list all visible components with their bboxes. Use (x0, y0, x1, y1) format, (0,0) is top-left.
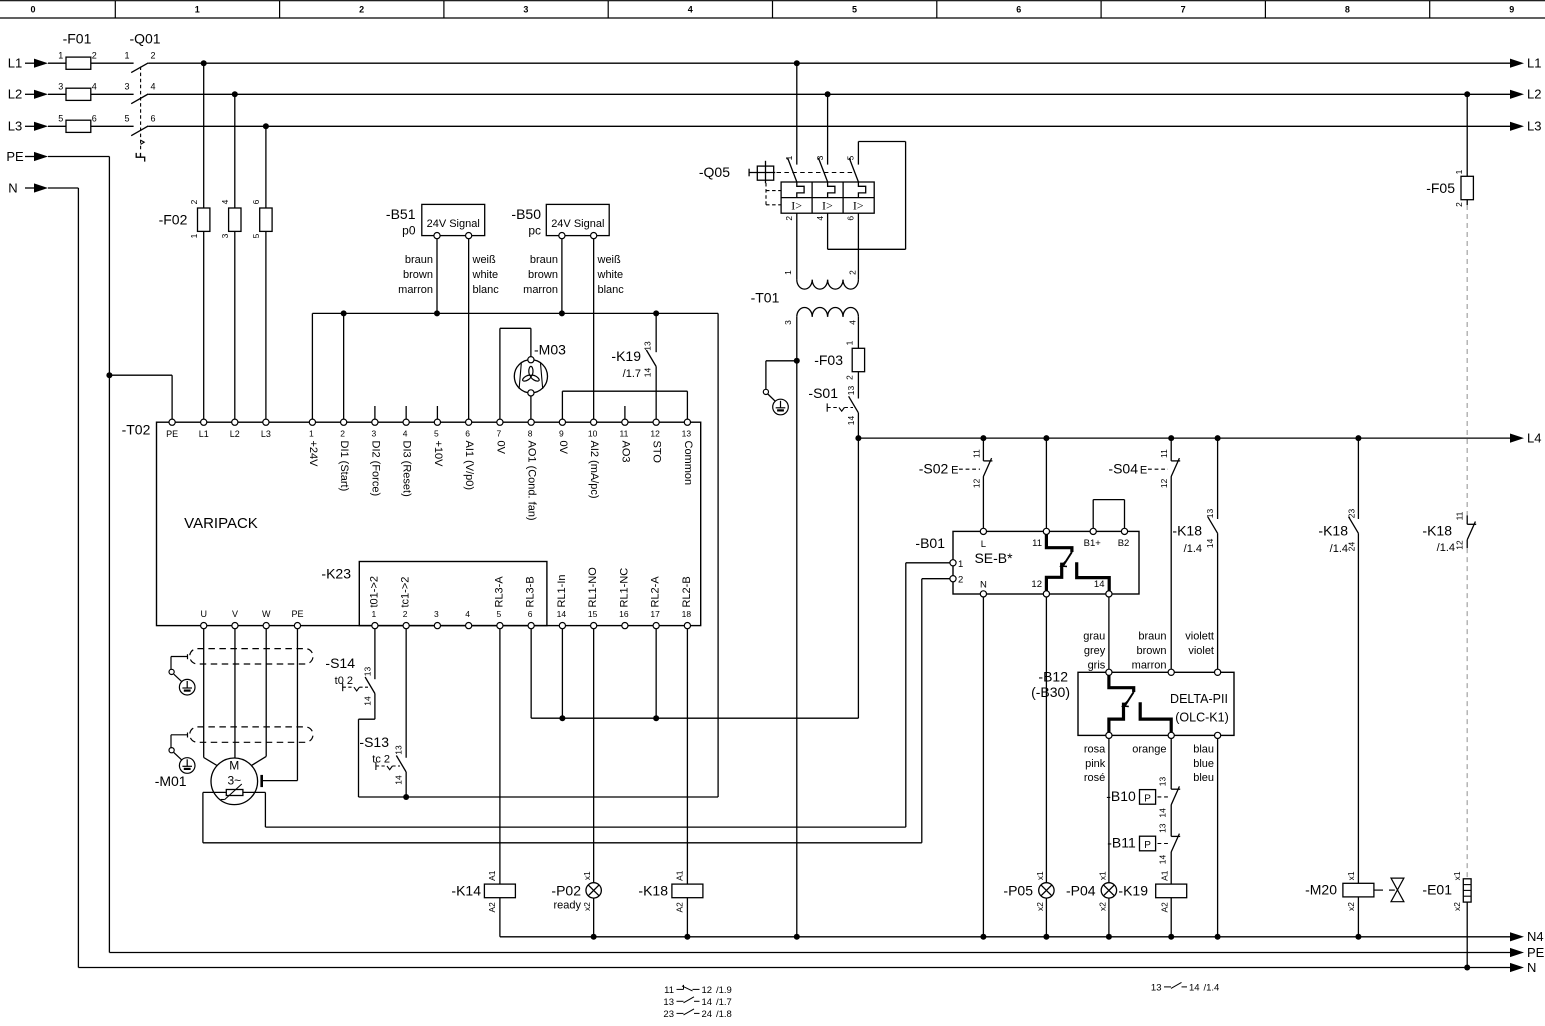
svg-text:1: 1 (783, 270, 793, 275)
svg-text:11: 11 (1159, 449, 1169, 458)
svg-text:white: white (597, 269, 624, 281)
svg-text:-S13: -S13 (359, 734, 389, 750)
svg-text:blau: blau (1193, 744, 1214, 756)
svg-text:grey: grey (1084, 645, 1106, 657)
svg-text:5: 5 (251, 233, 261, 238)
node N4 arrow (1510, 932, 1524, 941)
solenoid coil -M20 (1343, 883, 1374, 897)
wire P02 to N4 (593, 898, 595, 937)
svg-text:14: 14 (846, 416, 856, 426)
T01 earth link (766, 360, 797, 362)
svg-text:2: 2 (150, 50, 155, 60)
svg-text:23: 23 (1346, 509, 1356, 519)
svg-text:13: 13 (846, 386, 856, 396)
B12 terminal orange (1168, 732, 1174, 738)
fuse F01 pole 5-6 (66, 120, 91, 132)
svg-text:14: 14 (1094, 579, 1105, 590)
T02 terminal 13 Common (684, 419, 690, 425)
svg-text:grau: grau (1083, 631, 1105, 643)
svg-text:14: 14 (1158, 855, 1168, 865)
svg-text:gris: gris (1088, 659, 1106, 671)
svg-text:blanc: blanc (473, 284, 500, 296)
svg-text:4: 4 (848, 320, 858, 325)
Q05 pole blade 1 (788, 158, 797, 182)
svg-text:RL2-B: RL2-B (681, 576, 693, 607)
svg-text:-F01: -F01 (63, 31, 92, 47)
B12 terminal rosa (1106, 732, 1112, 738)
svg-text:orange: orange (1132, 744, 1166, 756)
svg-text:14: 14 (1158, 808, 1168, 818)
wire B12 orange to B10 (1170, 739, 1172, 790)
svg-text:L4: L4 (1527, 430, 1541, 445)
svg-text:17: 17 (650, 609, 660, 619)
switch -S04 E (11-12) (1171, 460, 1180, 462)
svg-text:11: 11 (664, 985, 674, 996)
pressure switch -B10 (13-14) (1171, 788, 1180, 790)
T02 terminal 3 DI2 (Force) (372, 419, 378, 425)
T02/K23 terminal 14 RL1-In (559, 623, 565, 629)
motor PE bar (260, 775, 263, 787)
B01 terminal 11 (1043, 528, 1049, 534)
svg-text:violett: violett (1185, 631, 1214, 643)
wire K14 to N4 (499, 898, 501, 937)
junction L2/F02 (232, 91, 238, 97)
wire T01-4 to F03 (857, 317, 859, 349)
T02 terminal 9 0V (559, 419, 565, 425)
junction L4/S02 (980, 435, 986, 441)
svg-text:4: 4 (815, 216, 825, 221)
pressure switch -B11 (13-14) (1171, 835, 1180, 837)
T02 terminal 7 0V (497, 419, 503, 425)
breaker Q01 mechanical linkage (140, 67, 142, 150)
svg-text:rosé: rosé (1084, 772, 1105, 784)
Q05 pole blade 5 (849, 158, 858, 182)
svg-text:12: 12 (1159, 478, 1169, 488)
svg-text:N: N (1527, 960, 1536, 975)
Q05 thermal element 3 (858, 182, 865, 198)
svg-text:24: 24 (1346, 542, 1356, 552)
wire F03 to S01 (857, 372, 859, 399)
svg-text:RL1-NO: RL1-NO (587, 567, 599, 608)
wire W to motor (265, 629, 267, 757)
node PE arrow (1510, 948, 1524, 957)
svg-text:DELTA-PII: DELTA-PII (1170, 692, 1228, 706)
T02/K23 terminal 16 RL1-NC (622, 623, 628, 629)
svg-text:RL1-In: RL1-In (556, 574, 568, 607)
wire Q05 pin6 to T01 (857, 213, 859, 280)
svg-text:-K19: -K19 (611, 348, 641, 364)
Q05 actuator dashed link (777, 172, 854, 174)
motor M01 PTC thermistor (226, 790, 243, 796)
svg-text:N: N (980, 580, 987, 591)
junction K18/N4 (684, 934, 690, 940)
wire K19 to N4 (1170, 898, 1172, 937)
thermostat contact -S14 t0 2 (365, 677, 375, 694)
wire RL1-NO to P02 (593, 629, 595, 883)
B01 terminal 12 (1043, 591, 1049, 597)
svg-text:0: 0 (30, 5, 35, 15)
svg-text:PE: PE (166, 429, 178, 439)
wire L4 rail (858, 437, 1510, 439)
svg-text:13: 13 (1158, 823, 1168, 833)
svg-text:pc: pc (528, 224, 541, 238)
svg-text:(-B30): (-B30) (1031, 684, 1070, 700)
svg-text:-T02: -T02 (122, 422, 151, 438)
svg-text:DI3 (Reset): DI3 (Reset) (401, 441, 413, 497)
svg-text:Common: Common (682, 441, 694, 486)
fuse F02 pole 4-3 (229, 208, 241, 231)
svg-text:SE-B*: SE-B* (974, 550, 1013, 566)
wire L1 to F02 (203, 63, 205, 208)
cable shield 1 (190, 649, 313, 664)
svg-text:-E01: -E01 (1422, 882, 1452, 898)
junction P05/N4 (1043, 934, 1049, 940)
relay coil -K18 (672, 884, 703, 898)
svg-text:1: 1 (372, 609, 377, 619)
B51 terminal braun (434, 233, 440, 239)
svg-text:2: 2 (340, 429, 345, 439)
svg-text:-B12: -B12 (1038, 669, 1068, 685)
wire S13 to thermostat net (405, 772, 407, 797)
svg-text:brown: brown (528, 269, 558, 281)
breaker Q01 contact 3-4 (131, 94, 148, 104)
svg-text:B1+: B1+ (1084, 538, 1102, 549)
B51 terminal weiss (466, 233, 472, 239)
T02 terminal 1 +24V (309, 419, 315, 425)
svg-text:x2: x2 (1346, 902, 1356, 911)
junction L1/F02 (201, 60, 207, 66)
T02 terminal 12 STO (653, 419, 659, 425)
lamp -P05 (1039, 883, 1054, 898)
junction net718/RL1-In (559, 715, 565, 721)
fuse -F05 (1461, 176, 1473, 199)
svg-text:weiß: weiß (597, 254, 622, 266)
T02 terminal V bottom (232, 623, 238, 629)
svg-text:3: 3 (523, 5, 528, 15)
wire L4 to K18 contact (1217, 438, 1219, 519)
Q05 thermal element 1 (797, 182, 804, 198)
svg-text:marron: marron (523, 284, 558, 296)
wire N rail (78, 967, 1510, 969)
heater -E01 (1463, 879, 1471, 902)
svg-text:12: 12 (1031, 579, 1042, 590)
svg-text:10: 10 (588, 429, 598, 439)
svg-text:x1: x1 (1097, 871, 1107, 880)
svg-text:x1: x1 (1346, 871, 1356, 880)
B50 terminal braun (559, 233, 565, 239)
svg-text:5: 5 (434, 429, 439, 439)
svg-text:blue: blue (1193, 758, 1214, 770)
svg-text:2: 2 (848, 270, 858, 275)
svg-text:RL3-B: RL3-B (525, 576, 537, 607)
svg-text:2: 2 (359, 5, 364, 15)
svg-text:A2: A2 (675, 902, 685, 913)
svg-text:13: 13 (1158, 777, 1168, 787)
svg-text:I>: I> (853, 199, 864, 213)
svg-text:13: 13 (643, 341, 653, 351)
transformer T01 secondary winding (797, 307, 812, 316)
svg-text:11: 11 (619, 429, 628, 439)
stub wire terminal 3 (374, 406, 376, 419)
wire V to motor (234, 629, 236, 759)
svg-text:8: 8 (528, 429, 533, 439)
svg-text:tc 2: tc 2 (372, 754, 390, 766)
T02/K23 terminal 5 RL3-A (497, 623, 503, 629)
svg-text:-P04: -P04 (1066, 882, 1096, 898)
svg-text:6: 6 (465, 429, 470, 439)
svg-text:14: 14 (557, 609, 567, 619)
stub wire terminal 5 (436, 406, 438, 419)
optional wire dashed lower (1466, 548, 1468, 879)
svg-text:-P05: -P05 (1003, 882, 1033, 898)
svg-text:2: 2 (958, 575, 963, 586)
svg-text:RL1-NC: RL1-NC (618, 568, 630, 608)
B01 terminal 14 (1106, 591, 1112, 597)
svg-text:6: 6 (92, 113, 97, 123)
wire PTC right (243, 791, 266, 793)
svg-text:VARIPACK: VARIPACK (184, 515, 258, 532)
svg-text:2: 2 (92, 50, 97, 60)
wire 0V to Common (562, 390, 687, 392)
svg-text:ready: ready (553, 900, 581, 912)
svg-text:-S14: -S14 (325, 655, 355, 671)
svg-text:-F05: -F05 (1426, 180, 1455, 196)
svg-text:13: 13 (663, 997, 674, 1008)
T02 terminal L3 (263, 419, 269, 425)
wire K23-1 to S14 (374, 629, 376, 680)
contact -K18 /1.4 (13-14) (1208, 517, 1218, 534)
svg-text:24V Signal: 24V Signal (551, 218, 604, 230)
wire E01 to N (1466, 902, 1468, 967)
fuse F02 pole 2-1 (198, 208, 210, 231)
svg-text:13: 13 (1151, 982, 1162, 993)
wire B12 blau to N4 (1217, 739, 1219, 937)
M03 terminal top (528, 357, 534, 363)
junction P02/N4 (591, 934, 597, 940)
svg-text:13: 13 (362, 667, 372, 677)
B01 terminal 2 (950, 576, 956, 582)
wire F02-5 to T02 L3 (265, 231, 267, 419)
B01 terminal 1 (950, 560, 956, 566)
svg-text:DI1 (Start): DI1 (Start) (338, 441, 350, 492)
wire L4 to K18 23 (1357, 438, 1359, 519)
wire PE (48, 156, 109, 158)
junction +24V/DI1 (341, 310, 347, 316)
wire K23-2 to S13 (405, 629, 407, 758)
svg-text:L1: L1 (1527, 56, 1541, 71)
svg-text:P: P (1144, 793, 1151, 804)
junction L3/F02 (263, 123, 269, 129)
wire M20 to N4 (1357, 897, 1359, 937)
svg-text:x1: x1 (1452, 871, 1462, 880)
svg-text:-Q05: -Q05 (699, 164, 730, 180)
contact -K18 /1.4 (23-24) (1349, 517, 1359, 534)
svg-text:0V: 0V (557, 441, 569, 455)
wire K19 to STO (655, 367, 657, 420)
svg-text:-M01: -M01 (155, 773, 187, 789)
svg-text:11: 11 (1455, 511, 1465, 520)
lamp -P04 (1101, 883, 1116, 898)
junction E01/N (1464, 965, 1470, 971)
relay coil -K14 (484, 884, 515, 898)
T02 terminal 6 AI1 (V/p0) (466, 419, 472, 425)
svg-text:16: 16 (619, 609, 629, 619)
node L3 arrow right (1510, 122, 1524, 131)
junction L4/K18-13 (1215, 435, 1221, 441)
junction B01-N/N4 (980, 934, 986, 940)
svg-text:1: 1 (195, 5, 200, 15)
wire L4 to S02 (982, 438, 984, 461)
svg-text:p0: p0 (402, 224, 416, 238)
svg-text:3: 3 (124, 81, 129, 91)
B12 terminal braun (1168, 669, 1174, 675)
svg-text:23: 23 (663, 1009, 674, 1020)
T02 terminal W bottom (263, 623, 269, 629)
wire B11 to K19 coil (1170, 852, 1172, 884)
sensor B51 box (422, 204, 485, 235)
wire S01 to L4 (857, 413, 859, 438)
svg-text:U: U (200, 609, 207, 619)
svg-text:2: 2 (784, 216, 794, 221)
junction M20/N4 (1355, 934, 1361, 940)
junction net718/RL2-A (653, 715, 659, 721)
svg-text:A1: A1 (487, 870, 497, 881)
svg-text:5: 5 (846, 155, 856, 160)
svg-text:5: 5 (852, 5, 857, 15)
T02/K23 terminal 4 (466, 623, 472, 629)
T02 terminal L2 (232, 419, 238, 425)
breaker Q01 contact 5-6 (131, 126, 148, 136)
svg-text:-B11: -B11 (1107, 835, 1136, 851)
svg-text:7: 7 (497, 429, 502, 439)
svg-text:blanc: blanc (598, 284, 625, 296)
B12 internal changeover contact (1109, 675, 1134, 692)
node L4 arrow (1510, 434, 1524, 443)
svg-text:-K23: -K23 (321, 566, 351, 582)
fuse F02 pole 6-5 (260, 208, 272, 231)
junction L4/K18-23 (1355, 435, 1361, 441)
svg-text:bleu: bleu (1193, 772, 1214, 784)
svg-text:AI2 (mA/pc): AI2 (mA/pc) (588, 441, 600, 499)
T02/K23 terminal 3 (434, 623, 440, 629)
svg-text:A1: A1 (1159, 870, 1169, 881)
wire B01 N to N4 (982, 597, 984, 937)
svg-text:-M03: -M03 (534, 342, 566, 358)
junction L4/B01-11 (1043, 435, 1049, 441)
svg-text:-M20: -M20 (1305, 882, 1337, 898)
T02 terminal U bottom (201, 623, 207, 629)
wire B12 rosa to P04 (1108, 739, 1110, 883)
svg-text:-K18: -K18 (1422, 523, 1452, 539)
T02 terminal PE (169, 419, 175, 425)
svg-text:P: P (1144, 840, 1151, 851)
svg-text:W: W (262, 609, 271, 619)
svg-text:6: 6 (846, 216, 856, 221)
svg-text:A2: A2 (487, 902, 497, 913)
svg-text:/1.4: /1.4 (1184, 543, 1202, 555)
svg-text:24V Signal: 24V Signal (427, 218, 480, 230)
svg-text:marron: marron (1132, 659, 1167, 671)
wire B50 weiss to AI2 (593, 239, 595, 419)
svg-text:-F02: -F02 (159, 211, 188, 227)
svg-text:1: 1 (189, 233, 199, 238)
B12 terminal blau (1215, 732, 1221, 738)
Q05 thermal element 2 (828, 182, 835, 198)
svg-text:2: 2 (1454, 202, 1464, 207)
svg-text:3~: 3~ (227, 774, 241, 788)
svg-text:4: 4 (403, 429, 408, 439)
T02/K23 terminal 6 RL3-B (528, 623, 534, 629)
wire M03 to AO1 (530, 396, 532, 419)
svg-text:I>: I> (791, 199, 802, 213)
valve symbol (1391, 878, 1404, 902)
svg-text:-B50: -B50 (511, 206, 541, 222)
T02/K23 terminal 2 tc1->2 (403, 623, 409, 629)
svg-text:4: 4 (220, 199, 230, 204)
switch -S01 (13-14) (849, 396, 859, 413)
svg-text:weiß: weiß (472, 254, 497, 266)
svg-text:2: 2 (189, 199, 199, 204)
wire B51 braun to +24V (436, 239, 438, 314)
junction S13/S14 net (403, 794, 409, 800)
Q05 body box (781, 182, 874, 213)
svg-text:/1.4: /1.4 (1330, 543, 1348, 555)
S14 actuator (342, 683, 344, 691)
wire T01-3 down (796, 317, 798, 361)
M20 valve link (1374, 889, 1383, 891)
Q05 manual operator (749, 172, 775, 174)
wire DI1 to +24V (343, 313, 345, 419)
B01 jumper B1+ to B2 (1092, 500, 1094, 529)
junction T01 earth branch (794, 358, 800, 364)
wire L2 to F05 (1466, 94, 1468, 176)
B50 terminal weiss (591, 233, 597, 239)
svg-text:marron: marron (398, 284, 433, 296)
wire RL2-B to K18 (686, 629, 688, 885)
wire S04 to B12 braun (1170, 476, 1172, 669)
svg-text:E: E (951, 464, 958, 476)
svg-text:L2: L2 (1527, 87, 1541, 102)
junction K19/N4 (1168, 934, 1174, 940)
T01 earth symbol (773, 399, 789, 415)
wire F02-1 to T02 L1 (203, 231, 205, 419)
svg-text:L1: L1 (199, 429, 209, 439)
wire S02 to B01 L (982, 476, 984, 528)
svg-text:N: N (8, 180, 17, 195)
junction P04/N4 (1106, 934, 1112, 940)
wire PE down to PE rail (108, 375, 110, 952)
wire B50 braun to +24V (561, 239, 563, 314)
svg-text:V: V (232, 609, 238, 619)
stub wire terminal 4 (405, 406, 407, 419)
stub wire terminal 11 (624, 406, 626, 419)
wire S14 to S13 junction (374, 694, 376, 720)
wire T01-3 to N4 rail (796, 361, 798, 937)
wire RL3-A to K14 (499, 629, 501, 885)
frequency inverter -T02 box (157, 422, 701, 625)
junction L1/Q05 (794, 60, 800, 66)
svg-text:2: 2 (403, 609, 408, 619)
svg-text:AO3: AO3 (619, 441, 631, 463)
wire PE to motor (296, 629, 298, 781)
svg-text:-S04: -S04 (1108, 461, 1138, 477)
svg-text:/1.8: /1.8 (716, 1009, 732, 1020)
wire Q05 pin2 to T01 (796, 213, 798, 280)
svg-text:5: 5 (497, 609, 502, 619)
wire PTC net to B01 pin2 (203, 842, 922, 844)
svg-text:L2: L2 (230, 429, 240, 439)
svg-text:-K18: -K18 (638, 882, 668, 898)
